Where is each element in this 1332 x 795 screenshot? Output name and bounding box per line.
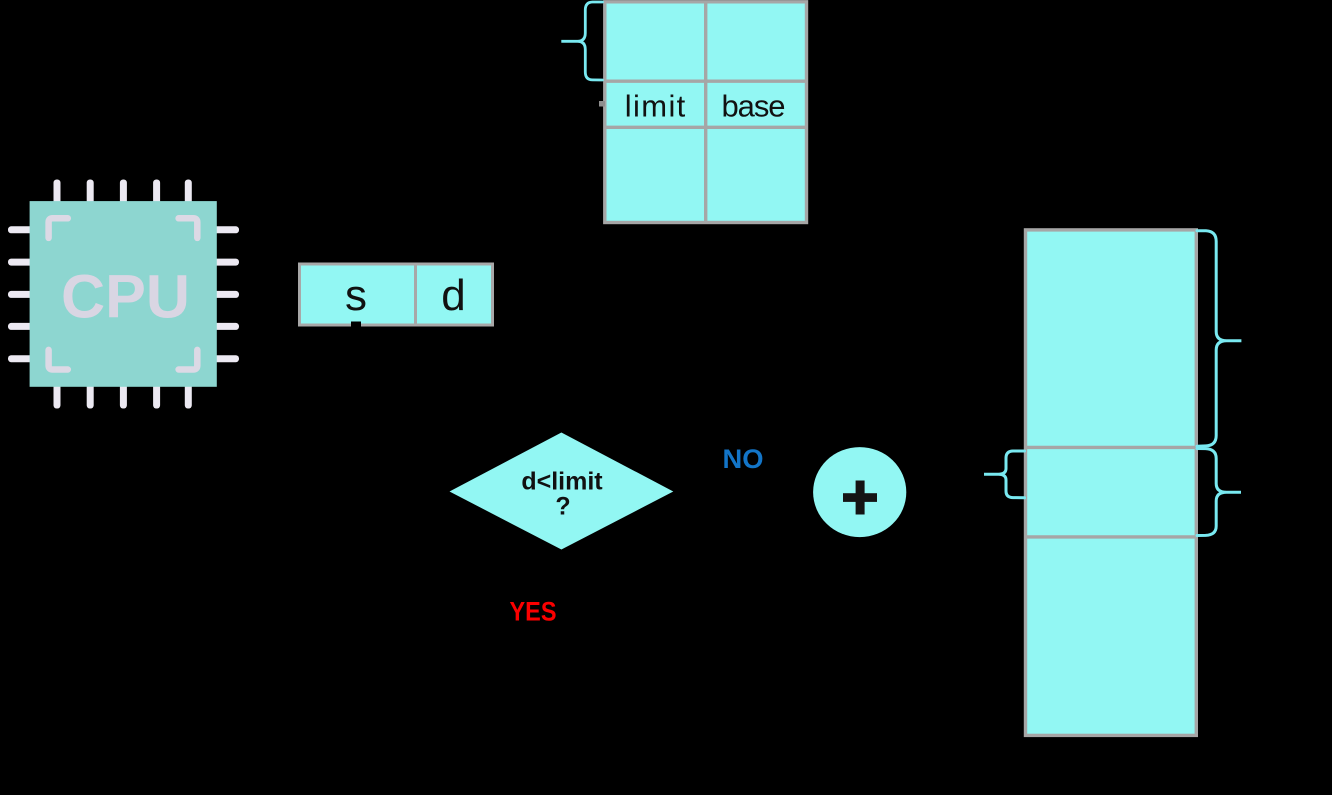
small brace left of memory middle section	[984, 451, 1025, 498]
adder circle	[813, 447, 906, 537]
svg-text:d: d	[441, 271, 465, 320]
CPU icon	[8, 180, 239, 409]
segment boundary lower	[1026, 535, 1197, 538]
svg-text:base: base	[722, 89, 786, 124]
svg-text:d<limit: d<limit	[521, 468, 603, 496]
physical memory column	[1026, 230, 1197, 736]
svg-text:?: ?	[555, 493, 570, 521]
small brace right of memory middle section	[1197, 449, 1241, 536]
large brace right of memory top section	[1197, 231, 1241, 447]
segment table	[599, 2, 807, 223]
CPU pins top	[54, 180, 192, 206]
svg-text:YES: YES	[510, 596, 557, 626]
CPU body	[30, 201, 217, 387]
brace left of segment table row	[561, 2, 602, 80]
CPU pins right	[213, 226, 239, 362]
CPU pins left	[8, 226, 34, 362]
svg-text:CPU: CPU	[61, 263, 190, 331]
svg-text:limit: limit	[625, 89, 686, 124]
black arrow notch over register bottom border	[351, 322, 361, 329]
CPU pins bottom	[54, 382, 192, 409]
logical address register s d	[300, 264, 493, 329]
svg-text:NO: NO	[723, 444, 764, 474]
decision diamond d&lt;limit?	[450, 433, 674, 550]
CPU corner brackets	[49, 218, 198, 369]
plus sign	[843, 493, 877, 502]
svg-text:s: s	[345, 271, 367, 320]
grey arrowhead remnant at limit row	[599, 101, 605, 107]
segment boundary upper	[1026, 446, 1197, 449]
